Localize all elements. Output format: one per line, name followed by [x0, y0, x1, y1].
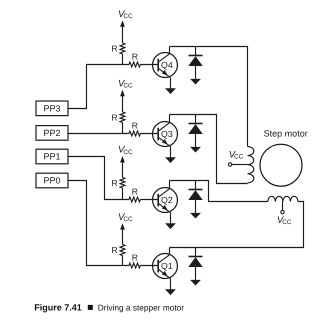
wire: W2 right end to Q1 rail	[170, 202, 304, 248]
svg-text:Driving a stepper motor: Driving a stepper motor	[98, 302, 184, 312]
input box PP3	[36, 101, 68, 116]
wire: base resistor to transistor Q3	[140, 133, 158, 135]
ground (emitter of Q2)	[165, 223, 176, 229]
wire: PP2 to Q3 base node	[68, 133, 129, 135]
wire: PP0 to Q1 base node	[68, 181, 129, 266]
input box PP1	[36, 149, 68, 164]
wire: pull-up to base node Q3	[122, 122, 124, 133]
svg-text:R: R	[132, 52, 138, 62]
ground (emitter of Q3)	[165, 157, 176, 163]
VCC arrow Q1 stage	[120, 223, 125, 229]
wire: base resistor to transistor Q2	[140, 199, 158, 201]
svg-text:R: R	[111, 178, 117, 188]
svg-text:R: R	[111, 245, 117, 255]
resistor R (pull-up, Q4 stage)	[120, 43, 125, 54]
wire: collector of Q1 to rail	[169, 248, 171, 255]
wire: PP1 to Q2 base node	[68, 157, 129, 200]
svg-text:CC: CC	[282, 219, 292, 226]
winding W2 (horizontal, phase B)	[268, 196, 298, 201]
input box PP0	[36, 173, 68, 188]
VCC arrow Q4 stage	[120, 20, 125, 26]
resistor R (base, Q1 stage)	[129, 263, 140, 268]
svg-text:R: R	[132, 253, 138, 263]
resistor R (base, Q3 stage)	[129, 131, 140, 136]
ground (diode, Q4 stage)	[190, 79, 201, 85]
wire: emitter of Q4 down	[170, 78, 172, 89]
wire: Q4 rail to top of winding W1	[170, 47, 248, 147]
wire: base resistor to transistor Q4	[140, 64, 158, 66]
wire: PP3 to Q4 base node	[68, 65, 129, 109]
resistor R (base, Q2 stage)	[129, 197, 140, 202]
resistor R (pull-up, Q2 stage)	[120, 178, 125, 189]
svg-text:R: R	[132, 121, 138, 131]
diode (clamp, Q4 stage)	[195, 47, 197, 56]
wire: W1 centre tap	[232, 164, 248, 166]
svg-text:Q4: Q4	[161, 60, 173, 70]
resistor R (pull-up, Q1 stage)	[120, 245, 125, 256]
wire: pull-up to base node Q1	[122, 256, 124, 266]
wire: W2 centre tap	[282, 202, 284, 211]
resistor R (base, Q4 stage)	[129, 62, 140, 67]
resistor R (pull-up, Q3 stage)	[120, 112, 125, 122]
VCC terminal W1	[228, 163, 231, 166]
svg-text:CC: CC	[123, 13, 133, 20]
wire: collector of Q3 to rail	[169, 115, 171, 123]
wire: collector of Q4 to rail	[169, 47, 171, 54]
input box PP2	[36, 126, 68, 141]
wire: collector of Q2 to rail	[169, 181, 171, 189]
ground (emitter of Q1)	[165, 289, 176, 295]
wire: emitter of Q3 down	[170, 147, 172, 158]
diode (clamp, Q3 stage)	[195, 115, 197, 124]
VCC terminal W2	[281, 210, 284, 213]
ground (diode, Q3 stage)	[190, 147, 201, 153]
svg-text:CC: CC	[123, 149, 133, 156]
diode (clamp, Q1 stage)	[195, 248, 197, 257]
svg-text:PP1: PP1	[43, 152, 60, 162]
wire: pull-up to base node Q4	[122, 54, 124, 65]
wire: base resistor to transistor Q1	[140, 265, 158, 267]
ground (emitter of Q4)	[165, 88, 176, 94]
wire: Q2 rail to left end of winding W2	[170, 181, 268, 202]
transistor Q4 (NPN)	[153, 53, 178, 78]
wire: emitter of Q2 down	[170, 213, 172, 224]
svg-text:R: R	[111, 112, 117, 122]
wire: pull-up to base node Q2	[122, 188, 124, 200]
svg-text:Q1: Q1	[161, 261, 173, 271]
svg-text:Figure 7.41: Figure 7.41	[34, 302, 82, 312]
winding W1 (vertical, phase A)	[248, 147, 254, 183]
svg-text:PP3: PP3	[43, 104, 60, 114]
transistor Q3 (NPN)	[153, 122, 178, 147]
svg-text:PP2: PP2	[43, 128, 60, 138]
svg-text:Q3: Q3	[161, 129, 173, 139]
svg-text:CC: CC	[234, 154, 244, 161]
wire: emitter of Q1 down	[170, 279, 172, 290]
transistor Q2 (NPN)	[153, 188, 178, 213]
ground (diode, Q1 stage)	[190, 280, 201, 286]
ground (diode, Q2 stage)	[190, 213, 201, 219]
stepper motor body	[260, 144, 302, 186]
svg-text:CC: CC	[123, 216, 133, 223]
transistor Q1 (NPN)	[153, 254, 178, 279]
VCC arrow Q2 stage	[120, 156, 125, 162]
svg-text:R: R	[111, 44, 117, 54]
svg-text:PP0: PP0	[43, 176, 60, 186]
diode (clamp, Q2 stage)	[195, 181, 197, 190]
svg-text:CC: CC	[123, 83, 133, 90]
svg-text:Q2: Q2	[161, 195, 173, 205]
VCC arrow Q3 stage	[120, 90, 125, 96]
svg-text:R: R	[132, 187, 138, 197]
wire: Q3 rail to bottom of winding W1	[170, 115, 248, 184]
svg-text:Step motor: Step motor	[264, 128, 308, 138]
